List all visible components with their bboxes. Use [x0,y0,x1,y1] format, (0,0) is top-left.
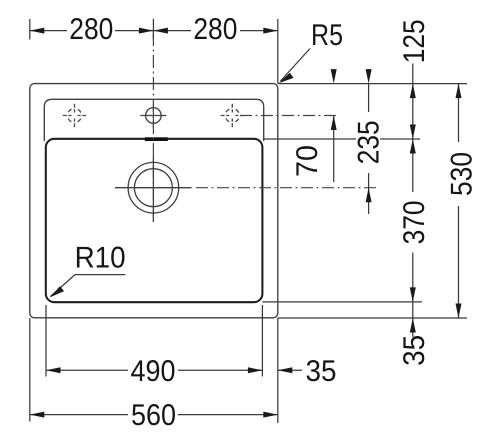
drain centerline dash-dot right extension [196,187,378,189]
right horizontal extension y=83.6 [278,83,467,85]
centerline solid through tap hole [152,104,154,129]
optional tap hole left (dashed) [63,104,86,127]
svg-text:560: 560 [131,399,176,432]
arrowheads [30,28,462,418]
dim 35 horizontal tail [278,369,302,371]
svg-text:125: 125 [398,19,431,63]
280 left arrow [30,28,45,34]
dim 235 vertical segments [368,84,370,113]
dim column x=412.8 : tail above, segments [412,64,414,84]
tap hole center circle [140,108,166,124]
530 top arrow [456,84,462,99]
bowl-bottom extension to right [262,301,422,303]
R5 arrowhead [279,73,294,83]
530 bottom arrow [456,304,462,319]
125 top arrow [410,84,416,99]
svg-text:35: 35 [306,355,337,388]
560 left arrow [30,412,45,418]
centerline solid through drain [152,156,154,222]
235 bottom arrow [366,188,372,203]
dim line 280 left [30,30,67,32]
svg-text:530: 530 [445,152,478,196]
bottom extension lines [29,318,31,422]
280 center arrows [139,28,154,34]
overflow mark [145,137,168,141]
sink outer outline 560x530 [30,84,278,318]
dim 530 vertical segments [458,84,460,142]
top extension line left [29,19,31,40]
drain outer circle [128,162,179,213]
rim inner edge (deck) [44,99,263,141]
svg-text:280: 280 [193,13,237,46]
label 235 (rotated) [356,112,380,173]
drain crosshair [115,162,192,213]
370 bottom arrow [410,287,416,302]
drain inner circle [134,169,172,207]
vertical centerline [152,33,154,222]
35 vertical bottom arrow (outside, tip up at y=318) [410,318,416,333]
dim 70 vertical: bottom tail [333,116,335,183]
top extension line right [277,19,279,84]
svg-text:370: 370 [398,200,431,244]
490 right arrow [248,367,263,373]
svg-text:R10: R10 [75,242,126,275]
svg-text:35: 35 [398,335,431,366]
svg-text:490: 490 [131,355,176,388]
dim line 560 [30,414,128,416]
70 top arrow (outside, tip down at y=83.6) [331,69,337,84]
R5 leader line [281,49,311,82]
top extension tick center [152,19,154,40]
sink-bottom extension to right [278,317,467,319]
dim line 490 [46,369,128,371]
svg-text:70: 70 [291,145,324,177]
R10 leader line [51,275,126,297]
70 bottom arrow (outside, tip up at y=115.5) [331,116,337,131]
bowl-top extension to right [264,138,420,140]
optional tap hole right (dashed) [221,104,244,127]
R10 arrowhead [50,286,65,297]
490 left arrow [46,367,61,373]
35 horizontal arrow (outside, tip left at x=277.8) [278,367,293,373]
svg-text:280: 280 [69,13,113,46]
bowl outline 490x370 R10 [46,139,263,302]
svg-text:235: 235 [352,120,385,164]
svg-text:R5: R5 [311,19,343,52]
280 right arrow [263,28,278,34]
560 right arrow [263,412,278,418]
125 bottom / 370 top bowtie at y=139 [410,125,416,140]
tap hole centerline dash-dot right extension [240,115,339,117]
235 top arrow [366,69,372,84]
dim line 280 right [153,30,191,32]
